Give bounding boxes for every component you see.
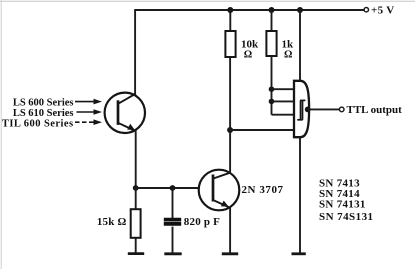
wire gate bottom to ground xyxy=(299,136,301,253)
phototransistor Q1 xyxy=(105,93,145,133)
+5V supply terminal xyxy=(364,5,394,17)
svg-text:TTL output: TTL output xyxy=(347,104,403,116)
svg-text:SN 74S131: SN 74S131 xyxy=(319,211,373,223)
junction node rail/R1 xyxy=(227,7,233,13)
resistor R1 10k xyxy=(225,10,235,130)
wire +5V top rail xyxy=(134,9,364,11)
junction node gate input 2 xyxy=(269,99,275,105)
svg-text:Ω: Ω xyxy=(244,49,252,60)
resistor R2 1k xyxy=(266,10,276,115)
junction node capacitor tap xyxy=(170,185,176,191)
light arrow 2 xyxy=(77,109,103,115)
wire Q1 emitter down xyxy=(135,131,137,188)
Schmitt trigger gate U1 xyxy=(294,81,309,137)
wire rail to Q1 collector xyxy=(134,10,136,94)
scan border top edge xyxy=(0,0,415,2)
light arrow 1 xyxy=(75,99,102,105)
ground 2 xyxy=(164,252,181,255)
svg-text:SN 74131: SN 74131 xyxy=(319,198,366,210)
svg-text:820 p F: 820 p F xyxy=(184,216,220,228)
svg-text:+5 V: +5 V xyxy=(371,5,394,17)
transistor Q2 2N3707 xyxy=(199,170,240,211)
wire gate input 1 xyxy=(272,88,295,90)
wire node to Q2 base xyxy=(136,187,199,189)
wire rail to gate top xyxy=(299,10,301,82)
wire gate output xyxy=(308,108,340,110)
junction node gate input 1 xyxy=(269,86,275,92)
svg-text:Ω: Ω xyxy=(284,50,292,61)
junction node rail/gate power xyxy=(297,7,303,13)
light arrow 3 (dashed) xyxy=(75,119,102,125)
wire Q2 collector up to node xyxy=(229,130,231,173)
label 1k ohm xyxy=(282,39,295,61)
ground 1 xyxy=(128,252,144,255)
wire gate input 4 xyxy=(230,129,294,131)
junction node collector/R1/gate input xyxy=(227,127,233,133)
svg-text:LS 600 Series: LS 600 Series xyxy=(13,98,74,109)
resistor R3 15k xyxy=(131,188,141,253)
junction node emitter/base xyxy=(133,185,139,191)
scan border left edge xyxy=(0,0,2,269)
junction node rail/R2 xyxy=(269,7,275,13)
hysteresis symbol xyxy=(297,100,305,119)
ground 3 xyxy=(222,252,238,255)
svg-text:15k Ω: 15k Ω xyxy=(97,216,127,228)
svg-text:LS 610 Series: LS 610 Series xyxy=(13,108,74,119)
svg-text:TIL 600 Series: TIL 600 Series xyxy=(2,119,74,130)
ground 4 xyxy=(292,252,306,255)
wire gate input 3 xyxy=(272,114,295,116)
wire gate input 2 xyxy=(272,100,295,102)
TTL output terminal xyxy=(339,104,402,116)
capacitor C1 820 pF xyxy=(164,188,181,253)
svg-text:2N 3707: 2N 3707 xyxy=(242,184,284,196)
wire Q2 emitter to ground xyxy=(229,208,231,253)
junction node gate output xyxy=(305,107,311,113)
label 10k ohm xyxy=(241,39,259,61)
